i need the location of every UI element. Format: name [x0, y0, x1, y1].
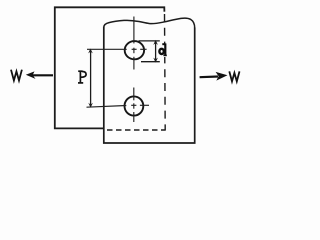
front plate (right plate) outline with broken (wavy) top edge: [104, 18, 195, 28]
hole H2 horizontal centerline (also p extension): [87, 105, 150, 107]
dimension d line: [155, 42, 157, 61]
dimension p bottom arrowhead: [88, 103, 93, 108]
front plate left, bottom, right edges: [104, 27, 195, 143]
hole H1 horizontal centerline (also p extension): [87, 48, 147, 50]
back plate hidden right edge (dashed): [164, 14, 167, 131]
label W left: [11, 70, 22, 81]
dimension d bottom extension line: [141, 61, 160, 63]
dimension p top arrowhead: [88, 49, 93, 54]
white mask under label d (gap in dashed line): [159, 44, 168, 57]
dimension d top extension line: [139, 40, 160, 42]
label d: [159, 43, 166, 55]
dimension d bottom arrowhead: [153, 58, 158, 63]
load arrow left (W): [32, 74, 54, 76]
hole H1 vertical centerline: [133, 17, 135, 70]
label W right: [229, 71, 239, 81]
dimension d top arrowhead: [153, 40, 158, 45]
back plate (left plate) visible outline: [55, 7, 165, 128]
back plate hidden bottom edge (dashed): [107, 129, 166, 131]
dimension p line: [90, 51, 92, 106]
hole H2 (bottom rivet hole): [124, 96, 143, 115]
hole H2 vertical centerline: [133, 88, 135, 123]
hole H1 (top rivet hole): [125, 41, 144, 59]
load arrow right (W): [200, 75, 218, 78]
label P: [78, 71, 86, 83]
